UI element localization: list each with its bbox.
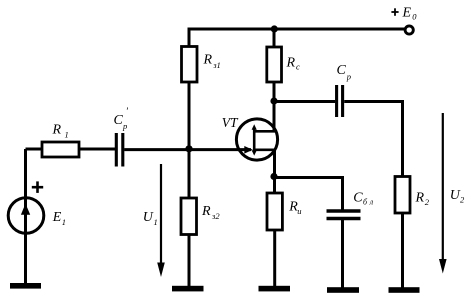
resistor Ri — [267, 193, 282, 230]
node dot gate / Rz2 — [185, 145, 192, 152]
arrowhead U1 — [157, 263, 165, 278]
svg-text:E: E — [52, 210, 62, 225]
wire R1 to C'p — [79, 148, 115, 151]
capacitor C'p — [116, 133, 123, 167]
transistor VT circle — [236, 119, 277, 160]
capacitor Cbl — [327, 211, 361, 219]
wire E1 to R1 — [26, 148, 44, 151]
wire drain node to Cp — [274, 100, 335, 103]
plus sign of E1 — [32, 181, 43, 193]
arrowhead of E1 source — [21, 204, 30, 215]
resistor Rz2 — [181, 198, 197, 235]
svg-text:2: 2 — [460, 195, 465, 205]
svg-text:2: 2 — [425, 197, 430, 207]
wire Rc top stub — [273, 29, 276, 48]
wire Rz2 top stub — [188, 149, 191, 199]
capacitor Cp — [337, 85, 343, 117]
wire Rz1 top stub — [188, 29, 191, 48]
svg-text:0: 0 — [412, 12, 417, 22]
wire C'p to gate of VT — [124, 148, 251, 151]
wire Rz2 to ground — [188, 235, 191, 290]
svg-text:р: р — [346, 71, 351, 81]
svg-text:з1: з1 — [212, 60, 221, 70]
wire Cp to R2 corner — [344, 102, 402, 179]
svg-text:R: R — [286, 56, 296, 71]
arrow U1 — [160, 164, 162, 264]
svg-text:с: с — [296, 62, 300, 72]
wire Ri to ground — [273, 230, 276, 289]
svg-text:C: C — [353, 191, 363, 206]
svg-text:C: C — [337, 63, 347, 78]
wire Rz1 bottom to gate node — [188, 82, 191, 150]
wire R2 to ground — [401, 213, 404, 288]
wire Cbl to ground — [341, 220, 344, 290]
ground E1 — [10, 283, 41, 289]
resistor R1 — [42, 142, 79, 157]
svg-text:C: C — [114, 113, 124, 128]
svg-text:′: ′ — [126, 107, 129, 118]
svg-text:R: R — [201, 204, 211, 219]
source E1 circle — [8, 198, 44, 234]
terminal +E0 — [405, 26, 413, 34]
plus sign of +E0 — [391, 8, 398, 16]
ground R2 — [389, 287, 420, 293]
svg-text:р: р — [122, 121, 127, 131]
transistor VT channel bottom arrowhead — [252, 150, 257, 155]
resistor R2 — [395, 177, 410, 214]
transistor VT gate arrowhead — [244, 146, 253, 154]
wire Rc bottom to drain — [273, 82, 276, 131]
svg-text:R: R — [415, 191, 425, 206]
svg-text:1: 1 — [65, 130, 69, 140]
svg-text:R: R — [203, 53, 213, 68]
svg-text:бл: бл — [363, 198, 376, 207]
node dot top rail / Rc — [271, 25, 278, 32]
node dot drain / Cp — [270, 97, 277, 104]
ground Cbl — [327, 287, 359, 293]
wire input left vertical through E1 — [24, 149, 27, 284]
svg-text:1: 1 — [62, 217, 66, 227]
ground Ri — [259, 286, 291, 292]
arrowhead U2 — [439, 259, 447, 274]
svg-text:з2: з2 — [211, 211, 220, 221]
transistor VT drain bar — [253, 130, 276, 133]
resistor Rz1 — [182, 47, 198, 83]
node dot source / Cbl — [270, 173, 277, 180]
wire source node to Cbl corner — [275, 178, 343, 211]
svg-text:U: U — [143, 210, 154, 225]
wire top supply rail — [188, 28, 405, 31]
svg-text:и: и — [297, 206, 301, 216]
transistor VT channel top arrowhead — [252, 124, 257, 130]
resistor Rc — [267, 47, 282, 82]
wire source of VT down — [273, 150, 276, 194]
arrow U2 — [442, 113, 444, 261]
svg-text:1: 1 — [154, 217, 158, 227]
svg-text:E: E — [402, 6, 412, 21]
transistor VT channel — [253, 127, 256, 152]
svg-text:R: R — [52, 123, 62, 138]
svg-text:VT: VT — [222, 115, 239, 130]
transistor VT source bar — [253, 149, 276, 152]
ground Rz2 — [172, 286, 204, 292]
